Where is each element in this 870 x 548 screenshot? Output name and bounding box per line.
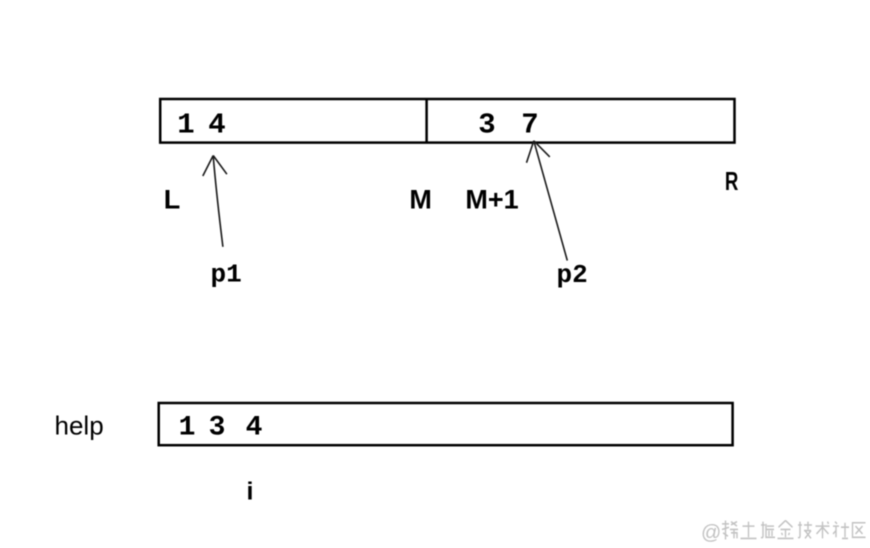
watermark char 区 — [853, 523, 866, 538]
svg-text:7: 7 — [521, 109, 538, 142]
svg-text:4: 4 — [246, 413, 263, 444]
watermark char 金 — [778, 521, 794, 539]
watermark char 社 — [833, 522, 849, 539]
watermark char 稀 — [722, 521, 738, 540]
watermark char 土 — [741, 522, 757, 539]
svg-text:3: 3 — [209, 413, 226, 444]
svg-text:i: i — [247, 478, 254, 506]
watermark char 掘 — [761, 522, 775, 538]
arrow p2 shaft — [534, 141, 568, 261]
svg-text:@: @ — [701, 522, 721, 544]
svg-text:p1: p1 — [211, 260, 242, 290]
top array box — [160, 99, 734, 143]
watermark char 术 — [816, 522, 830, 539]
help array box — [159, 403, 733, 445]
arrow p1 shaft — [213, 156, 223, 247]
svg-text:4: 4 — [208, 109, 225, 142]
arrow p2 head — [527, 141, 550, 163]
watermark characters — [722, 521, 866, 540]
divider M|M+1 — [425, 99, 428, 143]
svg-text:1: 1 — [179, 413, 196, 444]
arrow p1 head — [203, 156, 227, 177]
svg-text:1: 1 — [177, 109, 194, 142]
svg-text:M+1: M+1 — [465, 185, 518, 215]
svg-text:L: L — [164, 185, 181, 215]
svg-text:p2: p2 — [557, 260, 588, 290]
svg-text:help: help — [55, 411, 104, 441]
svg-text:3: 3 — [478, 109, 495, 142]
svg-text:M: M — [409, 185, 432, 215]
watermark char 技 — [798, 522, 812, 539]
svg-text:R: R — [725, 166, 739, 196]
